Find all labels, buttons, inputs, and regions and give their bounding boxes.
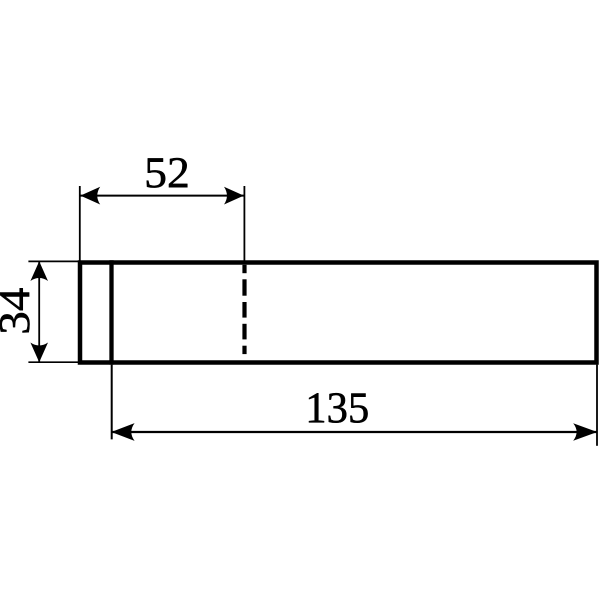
dim text 34 (rotated) — [0, 288, 30, 332]
arrowhead 34 bottom — [30, 343, 48, 363]
dimension line 52 — [80, 195, 244, 197]
arrowhead 34 top — [30, 261, 48, 281]
dimension line 34 — [38, 261, 40, 363]
dim text 52 — [147, 158, 188, 188]
extension line right of dim 135 — [596, 365, 598, 446]
dimension line 135 — [112, 431, 597, 433]
object outline: part body rectangle — [80, 263, 597, 363]
extension line left of dim 135 — [111, 365, 113, 440]
arrowhead 52 left — [80, 187, 100, 205]
arrowhead 135 left — [111, 423, 134, 441]
extension line left of dim 52 — [79, 186, 81, 261]
arrowhead 52 right — [224, 187, 244, 205]
arrowhead 135 right — [573, 423, 597, 440]
extension line right of dim 52 — [243, 186, 245, 261]
extension line bottom of dim 34 — [28, 361, 82, 363]
hidden/dashed line — [242, 265, 246, 354]
dim text 135 — [309, 393, 368, 423]
extension line top of dim 34 — [28, 260, 82, 262]
divider line (left segment edge) — [109, 260, 113, 364]
